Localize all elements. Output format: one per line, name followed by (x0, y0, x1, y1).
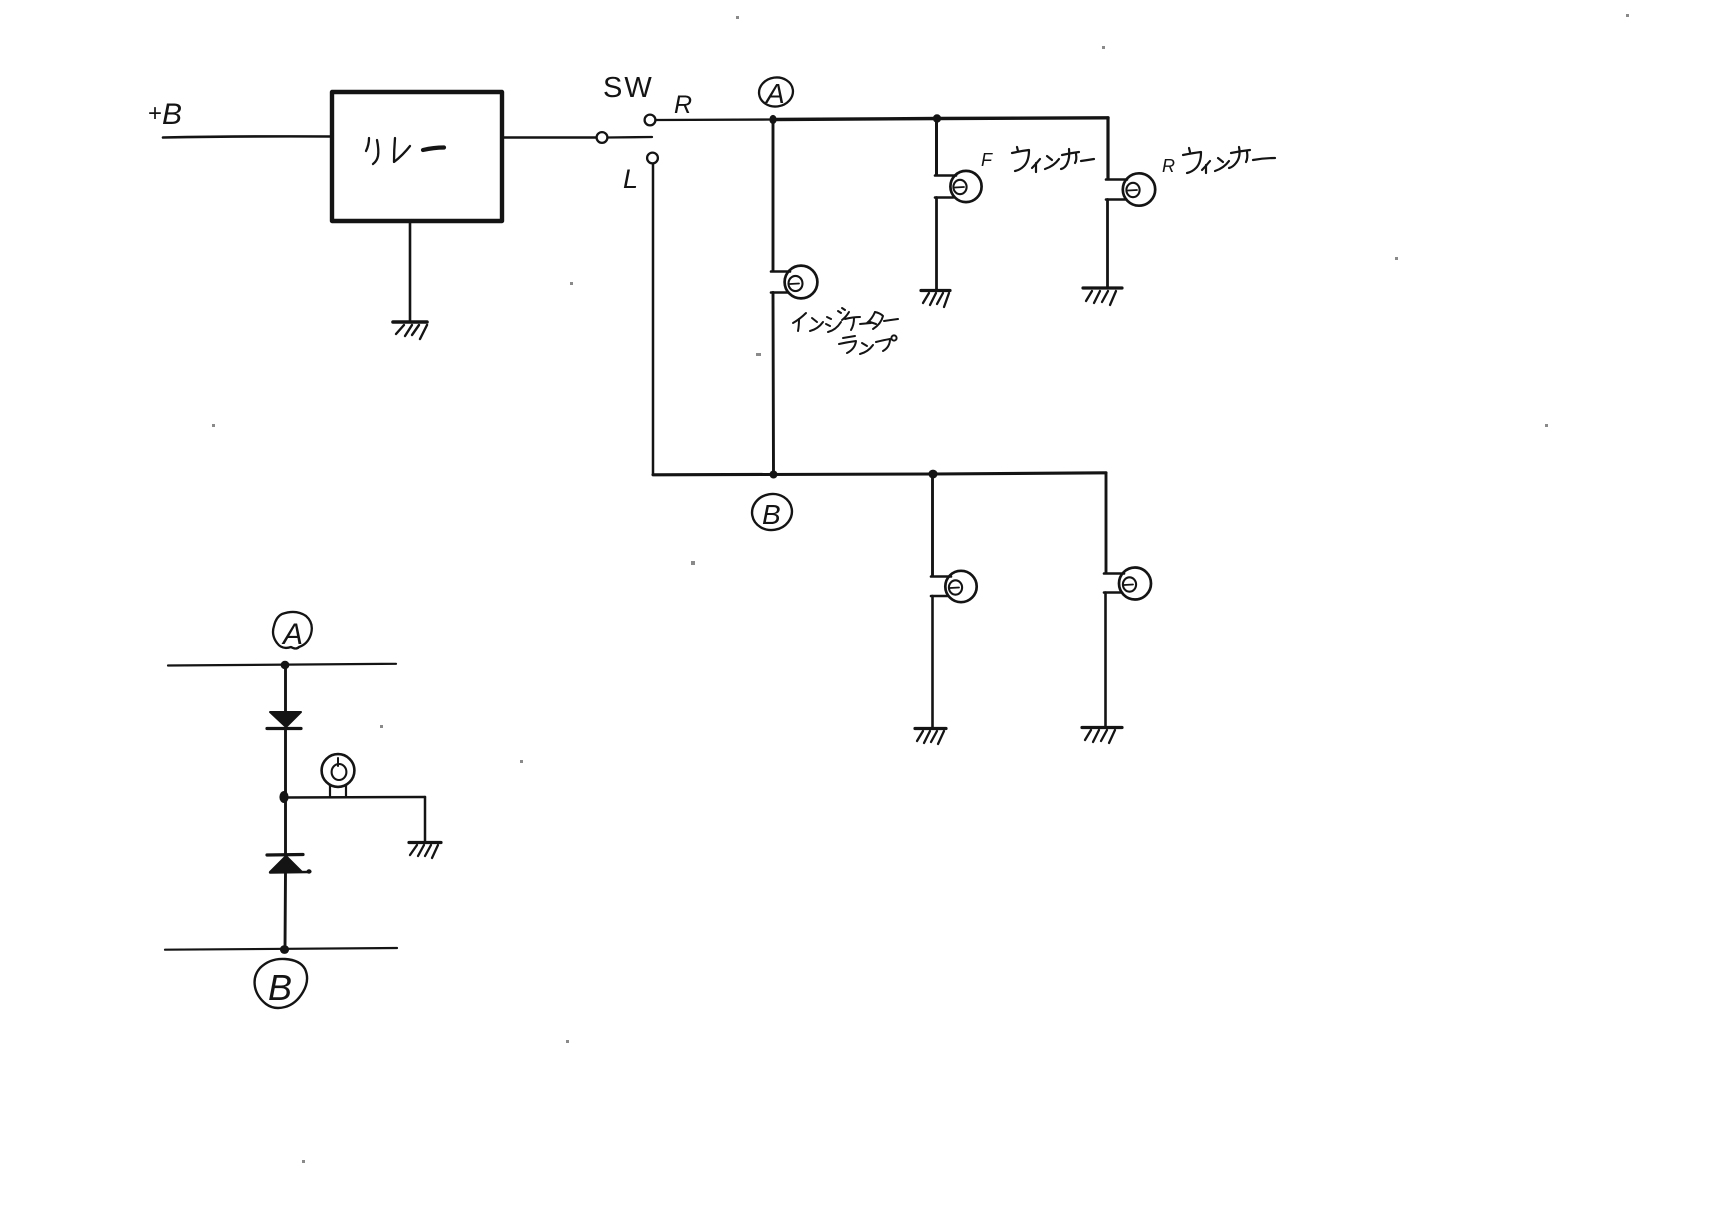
wire lower-right lamp to ground (1104, 593, 1107, 727)
wire lower-left lamp to ground (931, 596, 934, 727)
junction lamp branch (sub-circuit) (279, 791, 288, 803)
node B circled label (749, 491, 795, 533)
label F winker (Fウィンカー) (981, 147, 1094, 172)
diode D1 (anode top, cathode bar bottom) (267, 712, 301, 729)
lamp lower-right winker (1104, 568, 1151, 600)
wire contact L down to node B line (652, 164, 655, 475)
svg-text:R: R (674, 91, 692, 119)
junction lower-left lamp branch (928, 470, 937, 479)
svg-text:B: B (762, 499, 781, 530)
svg-text:F: F (981, 150, 993, 170)
wire lower-left branch upper (931, 474, 934, 576)
svg-text:SW: SW (603, 72, 654, 104)
ground below tester lamp (409, 843, 441, 859)
lamp indicator (771, 266, 817, 299)
lamp tester bulb (322, 754, 355, 797)
wire lamp branch horizontal (285, 796, 425, 799)
ground below R winker (1083, 288, 1122, 305)
wire relay to ground (409, 222, 412, 321)
junction node B (sub-circuit) (280, 945, 289, 954)
junction F-winker branch (933, 114, 941, 122)
wire lamp branch corner down (424, 797, 427, 841)
node A circled label (sub-circuit) (273, 612, 312, 651)
junction node B at indicator (770, 471, 778, 479)
label SW (603, 72, 654, 104)
wire R lamp to ground (1106, 200, 1109, 288)
svg-text:A: A (281, 618, 303, 651)
wire node B horizontal (sub-circuit) (165, 948, 397, 950)
svg-text:L: L (623, 164, 638, 194)
label indicator lamp line2 (ランプ) (839, 335, 897, 354)
wire diode D2 to node B line (284, 873, 287, 950)
switch contact L (647, 153, 658, 164)
label L (switch) (623, 164, 638, 194)
wire node A horizontal (sub-circuit) (168, 664, 396, 666)
label R winker (Rウィンカー) (1162, 147, 1275, 176)
wire F branch upper (935, 119, 938, 176)
ground below relay (393, 322, 427, 339)
wire top-right corner down (1106, 118, 1109, 179)
ground below lower-left lamp (915, 729, 946, 745)
wire junction to diode D2 (284, 797, 287, 855)
svg-text:R: R (1162, 156, 1175, 176)
svg-text:+: + (148, 100, 162, 127)
node A circled label (757, 75, 795, 109)
wire node A to top-right corner (773, 118, 1108, 120)
wire node B line corner down (right branch) (1105, 473, 1108, 573)
wire contact R to node A (656, 118, 772, 121)
wire F lamp to ground (935, 198, 938, 290)
wire node A down to indicator lamp (772, 120, 775, 272)
switch pole wire stub (608, 136, 652, 139)
wire node A to diode D1 (284, 665, 287, 712)
node +B label (148, 98, 182, 131)
relay box U1 (332, 92, 502, 221)
svg-text:B: B (268, 967, 292, 1008)
switch contact R (645, 115, 656, 126)
svg-text:A: A (764, 78, 785, 109)
lamp lower-left winker (931, 571, 977, 602)
wire relay to switch pole (502, 136, 596, 139)
label indicator lamp (インジケーター) (793, 308, 898, 332)
node B circled label (sub-circuit) (255, 959, 308, 1008)
ground below F winker (921, 291, 950, 308)
wire diode D1 to lamp junction (284, 729, 287, 795)
wire indicator lamp to node B line (772, 293, 775, 475)
diode D2 (cathode bar top, anode bottom) (267, 855, 312, 874)
wire node B horizontal (653, 473, 1106, 475)
switch SW pole contact (597, 132, 608, 143)
ground below lower-right lamp (1082, 728, 1122, 744)
wire +B to relay (163, 136, 331, 137)
label R (switch) (674, 91, 692, 119)
scan speckles (212, 14, 1629, 1163)
svg-text:B: B (162, 98, 182, 131)
junction node A (769, 115, 776, 124)
relay label (katakana リレー) (366, 138, 444, 164)
junction node A (sub-circuit) (281, 661, 290, 669)
lamp R winker (1106, 173, 1155, 205)
lamp F winker (935, 171, 982, 202)
